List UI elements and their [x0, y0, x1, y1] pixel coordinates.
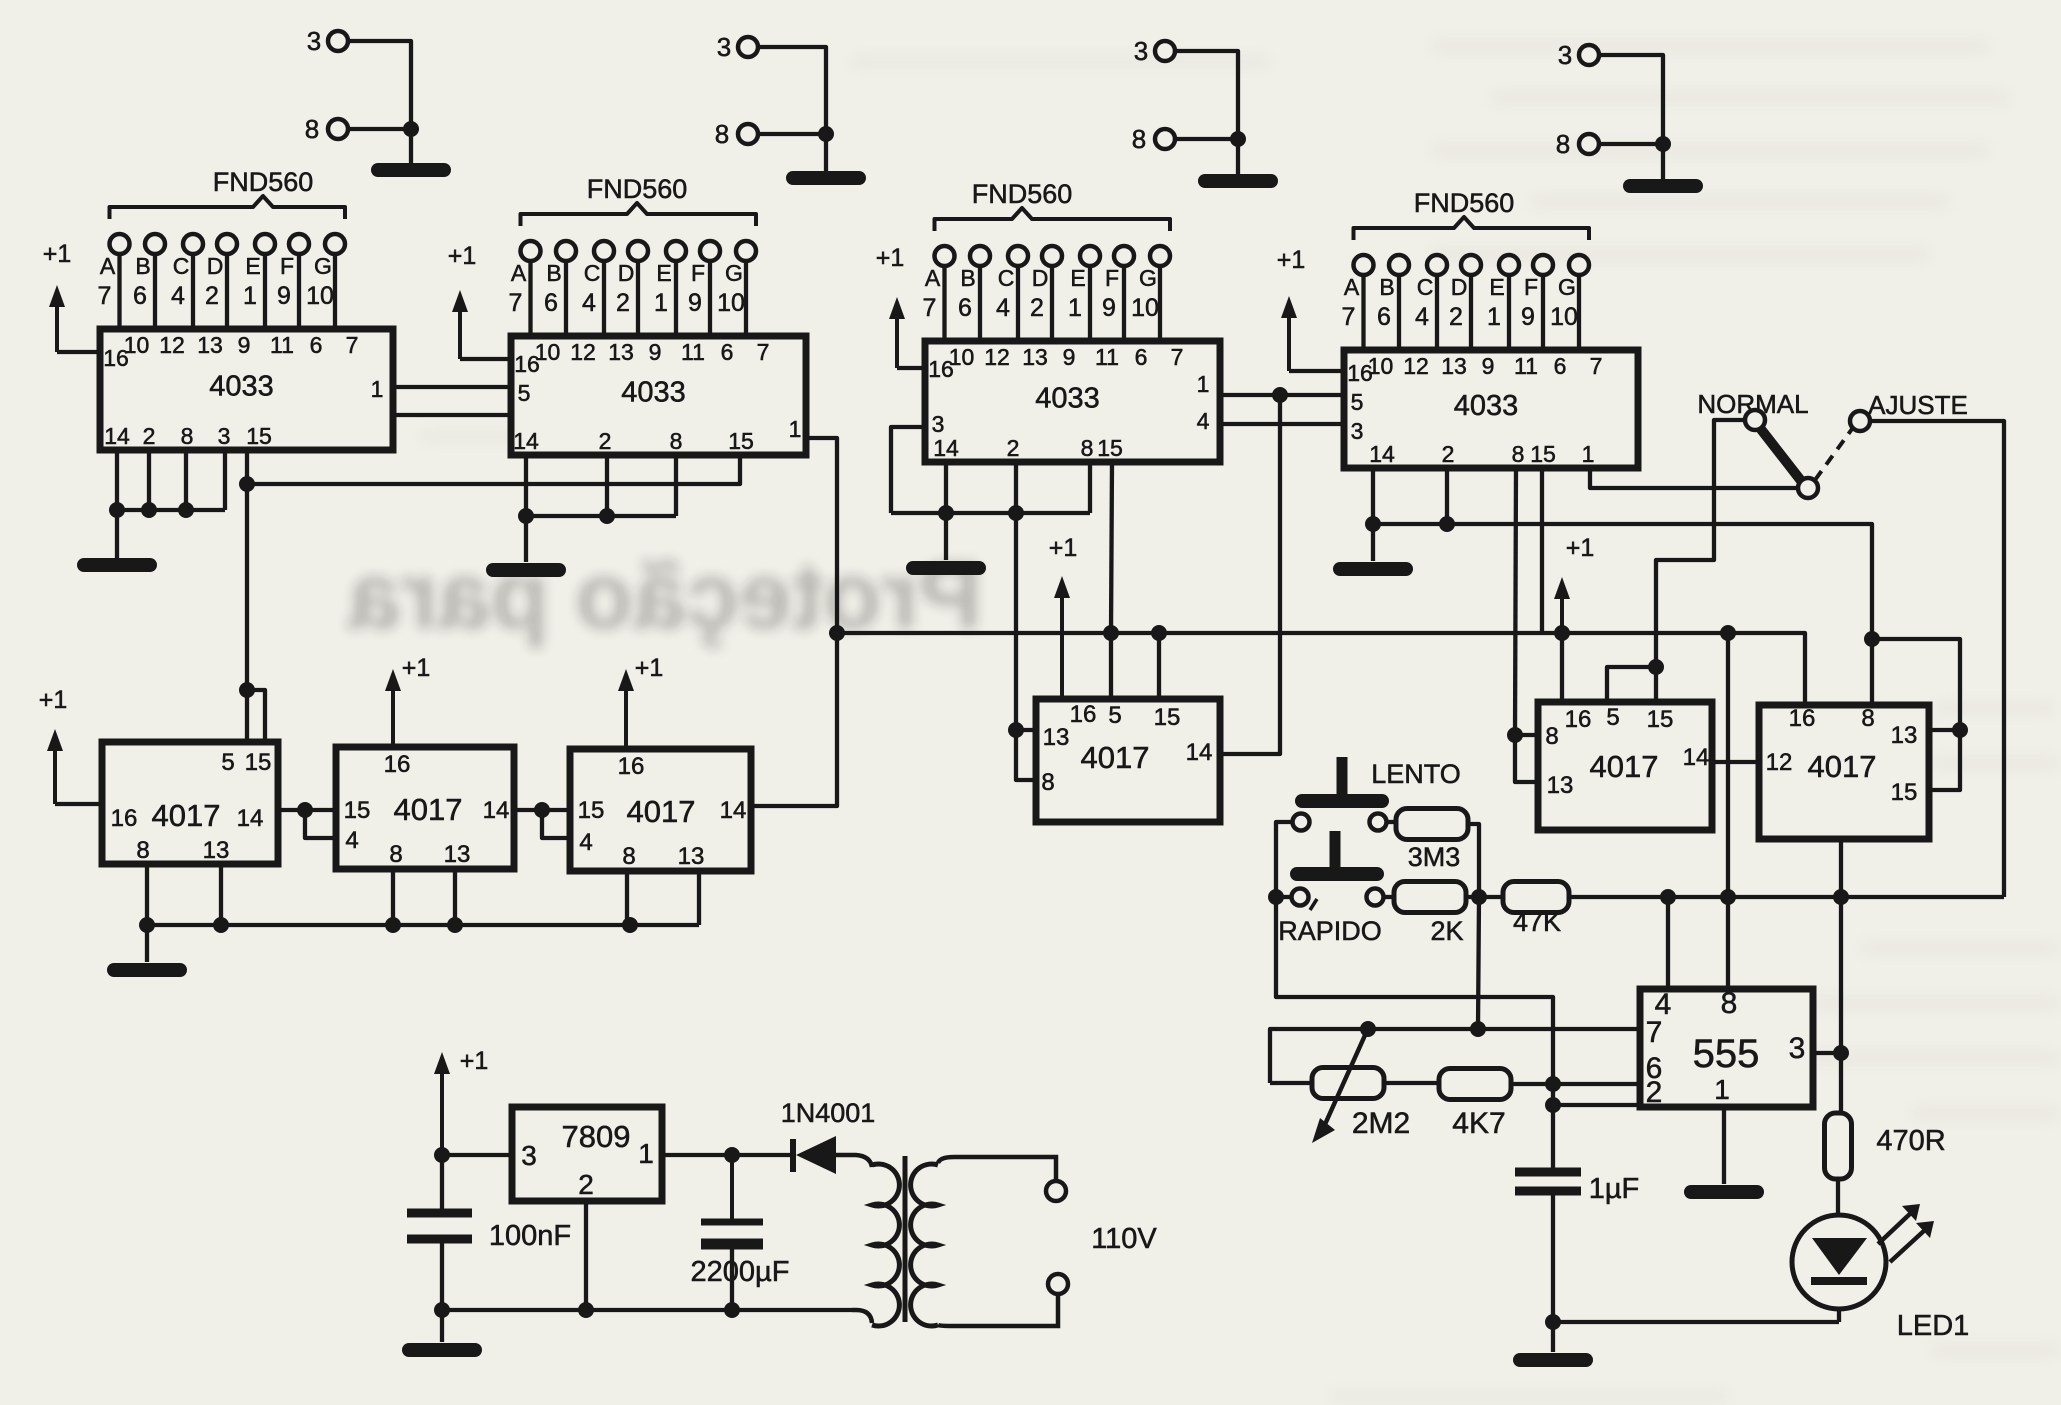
wire U4 rail to ground	[1371, 524, 1375, 561]
IC U9 pin labels	[1545, 704, 1709, 799]
svg-text:15: 15	[245, 749, 272, 776]
svg-text:1: 1	[371, 376, 384, 402]
display DISP4 segment wires	[1364, 275, 1580, 350]
pushbutton RAPIDO right contact	[1367, 889, 1384, 906]
node CONN1 junction	[403, 121, 419, 137]
node feedback junction	[1470, 1021, 1486, 1037]
node U4 rail 14	[1365, 516, 1381, 532]
display DISP4 pin circles	[1354, 255, 1590, 275]
svg-text:11: 11	[1514, 353, 1538, 379]
svg-text:8: 8	[305, 114, 319, 144]
svg-text:16: 16	[1070, 701, 1097, 728]
display DISP2 brace	[521, 203, 757, 226]
wire LENTO left to common	[1276, 822, 1292, 897]
ground supply	[409, 1343, 475, 1357]
svg-text:+1: +1	[876, 244, 905, 272]
svg-text:10: 10	[1550, 303, 1578, 331]
svg-text:1µF: 1µF	[1589, 1173, 1640, 1205]
switch S1 AJUSTE label	[1868, 390, 1968, 420]
wire 2M2 to 4K7	[1384, 1081, 1441, 1085]
svg-text:8: 8	[181, 423, 194, 449]
wire hook to pin5 U5	[245, 690, 249, 742]
display DISP2 FND560 label	[587, 174, 688, 204]
svg-text:1: 1	[243, 282, 257, 310]
wire tap down to U9 pin13	[1515, 735, 1538, 782]
svg-text:A: A	[511, 260, 527, 286]
ground U3	[913, 561, 979, 575]
svg-text:4017: 4017	[1590, 749, 1659, 784]
svg-text:12: 12	[1766, 749, 1793, 776]
node 4017 rail x630	[622, 917, 638, 933]
display DISP2 display pin numbers	[509, 289, 745, 317]
svg-text:4033: 4033	[1035, 383, 1100, 415]
IC U6 pin labels	[344, 751, 510, 868]
svg-text:3: 3	[1351, 418, 1364, 444]
svg-text:4: 4	[579, 829, 592, 856]
wire 2200uF to bottom	[730, 1248, 734, 1310]
switch S1 NORMAL label	[1697, 389, 1808, 419]
svg-text:2: 2	[205, 282, 219, 310]
pushbutton LENTO label	[1371, 759, 1461, 789]
ground CONN1	[378, 163, 444, 177]
svg-text:+1: +1	[39, 686, 68, 714]
wire U3 rail to ground	[944, 513, 948, 560]
pushbutton LENTO left contact	[1293, 814, 1310, 831]
svg-text:4033: 4033	[1454, 390, 1519, 422]
IC U5 name	[152, 798, 221, 833]
terminal CONN3 pin 3 label	[1134, 36, 1148, 66]
wire U4 pin2 down	[1445, 468, 1449, 524]
node U10 13-15 tie	[1952, 722, 1968, 738]
wire reg pin3	[442, 1153, 512, 1157]
svg-text:G: G	[1558, 274, 1576, 300]
potentiometer R4 2M2	[1312, 1068, 1384, 1099]
svg-text:6: 6	[544, 289, 558, 317]
transformer T1 secondary coil	[911, 1164, 938, 1326]
terminal CONN4 pin 8 circle	[1579, 134, 1599, 154]
node U7 input	[534, 802, 550, 818]
wire U4 pin15 down	[1540, 468, 1544, 633]
svg-text:12: 12	[1403, 353, 1429, 379]
IC U3 bottom pin labels	[933, 435, 1123, 461]
wire 555 pin1 down	[1722, 1107, 1726, 1184]
IC U4 top pin numbers	[1368, 353, 1603, 379]
pushbutton LENTO right contact	[1370, 814, 1387, 831]
svg-text:LENTO: LENTO	[1371, 759, 1461, 789]
svg-text:7: 7	[1171, 344, 1184, 370]
wire U3 pin3 loop	[891, 427, 925, 513]
display DISP1 FND560 label	[213, 167, 314, 197]
wire CONN1 pin8 to junction	[348, 127, 411, 131]
power +1 arrow U3	[876, 244, 925, 368]
svg-text:8: 8	[1861, 705, 1874, 732]
wire tap to U9 pin8	[1515, 733, 1538, 737]
svg-text:1: 1	[1487, 303, 1501, 331]
wire gnd rail to U10 pin8	[1870, 639, 1874, 705]
wire AJUSTE down right side	[1870, 421, 2004, 897]
wire U1 pin2 down	[147, 450, 151, 510]
svg-text:5: 5	[1606, 704, 1619, 731]
node gnd rail U10 pin8	[1864, 631, 1880, 647]
IC U3 4033 body	[925, 341, 1220, 462]
terminal CONN2 pin 8 circle	[738, 124, 758, 144]
node U6 input	[297, 802, 313, 818]
wire 2K to node	[1466, 895, 1504, 899]
power +1 arrow U9	[1554, 534, 1594, 633]
wire LED net down	[1839, 897, 1843, 1053]
wire railB to U8 pin5	[1109, 633, 1113, 699]
IC U3 pin 16 label	[928, 356, 954, 382]
svg-text:2: 2	[616, 289, 630, 317]
wire U2 pin8 down	[674, 455, 678, 516]
wire U3 pin14 down	[944, 462, 948, 513]
node U3 rail 2	[1008, 505, 1024, 521]
svg-text:E: E	[245, 253, 260, 279]
svg-text:10: 10	[717, 289, 745, 317]
IC U4 bottom pin labels	[1369, 441, 1594, 467]
svg-text:2K: 2K	[1430, 916, 1463, 946]
svg-text:2: 2	[1442, 441, 1455, 467]
terminal CONN1 pin 3 circle	[328, 31, 348, 51]
node 4017 rail x147	[139, 917, 155, 933]
wire supply +V vertical	[440, 1155, 444, 1212]
svg-text:4033: 4033	[209, 371, 274, 403]
svg-text:13: 13	[1891, 722, 1918, 749]
svg-text:6: 6	[1377, 303, 1391, 331]
svg-text:3: 3	[717, 32, 731, 62]
svg-text:1: 1	[654, 289, 668, 317]
pushbutton RAPIDO left contact	[1292, 889, 1309, 906]
wire U4 pin1 to switch	[1590, 468, 1798, 488]
svg-text:RAPIDO: RAPIDO	[1278, 916, 1382, 946]
svg-text:7: 7	[1590, 353, 1603, 379]
node filter cap top	[724, 1147, 740, 1163]
IC U1 name	[209, 371, 274, 403]
IC U8 name	[1081, 740, 1150, 775]
terminal CONN2 pin 8 label	[715, 119, 729, 149]
resistor R1 3M3	[1396, 809, 1468, 840]
svg-text:FND560: FND560	[972, 179, 1073, 209]
svg-text:C: C	[173, 253, 190, 279]
svg-text:2: 2	[1007, 435, 1020, 461]
wire reg pin1	[662, 1153, 732, 1157]
svg-text:C: C	[584, 260, 601, 286]
wire diode to transformer	[836, 1155, 872, 1167]
svg-text:+1: +1	[448, 242, 477, 270]
svg-text:11: 11	[1095, 344, 1119, 370]
wire U7 pin13 down	[697, 871, 701, 925]
svg-text:14: 14	[483, 797, 510, 824]
svg-text:D: D	[1032, 265, 1049, 291]
svg-text:7: 7	[346, 332, 359, 358]
node railB U9 pin16	[1554, 625, 1570, 641]
node railB U8 pin5	[1103, 625, 1119, 641]
pushbutton RAPIDO plunger	[1297, 831, 1377, 874]
display DISP3 pin circles	[935, 246, 1171, 266]
svg-text:6: 6	[958, 294, 972, 322]
IC U3 name	[1035, 383, 1100, 415]
wire tap down to U8 pin8	[1016, 730, 1036, 780]
label 110V	[1091, 1223, 1157, 1255]
transformer T1 primary coil	[872, 1164, 899, 1326]
wire CONN2 down to ground	[824, 134, 828, 172]
svg-text:+1: +1	[43, 240, 72, 268]
wire 3M3 to 2K node	[1468, 824, 1479, 897]
IC U1 bottom pin labels	[104, 423, 272, 449]
svg-text:8: 8	[1132, 124, 1146, 154]
wire U6 pin14 to U7 pin15	[514, 808, 570, 812]
terminal CONN3 pin 3 circle	[1155, 41, 1175, 61]
svg-text:15: 15	[1647, 706, 1674, 733]
svg-text:9: 9	[1521, 303, 1535, 331]
IC U2 pin 1 label	[789, 416, 802, 442]
svg-text:LED1: LED1	[1897, 1310, 1970, 1342]
wire U2 pin1 to 4017 clock	[751, 633, 837, 806]
svg-text:10: 10	[306, 282, 334, 310]
svg-text:C: C	[998, 265, 1015, 291]
IC U2 top pin numbers	[535, 339, 770, 365]
power +1 arrow U6	[385, 654, 430, 747]
svg-text:12: 12	[159, 332, 185, 358]
svg-text:6: 6	[721, 339, 734, 365]
wire node to ground	[1551, 1322, 1555, 1352]
wire 4K7 to pin6 node	[1511, 1082, 1553, 1086]
wire NORMAL to U6 clock	[1656, 420, 1745, 667]
node supply reg input	[434, 1147, 450, 1163]
IC U4 4033 body	[1344, 350, 1638, 468]
svg-text:47K: 47K	[1513, 907, 1561, 937]
node pin6 junction	[1545, 1076, 1561, 1092]
svg-text:4: 4	[171, 282, 185, 310]
wire CONN1 pin3 to ground rail	[348, 41, 411, 129]
svg-text:E: E	[1489, 274, 1504, 300]
svg-text:5: 5	[518, 380, 531, 406]
node on U3-U4 wire	[1272, 387, 1288, 403]
ground CONN4	[1630, 179, 1696, 193]
svg-text:G: G	[725, 260, 743, 286]
svg-text:B: B	[135, 253, 150, 279]
wire U3 pin15 down	[1111, 462, 1112, 633]
node U2 rail 2	[599, 508, 615, 524]
svg-text:5: 5	[1351, 389, 1364, 415]
svg-text:A: A	[925, 265, 941, 291]
wire 2M2 left lead	[1270, 1081, 1312, 1085]
svg-text:13: 13	[1022, 344, 1048, 370]
terminal CONN1 pin 3 label	[307, 26, 321, 56]
svg-text:8: 8	[622, 843, 635, 870]
wire U3 pin2 down	[1014, 462, 1018, 513]
svg-text:7: 7	[923, 294, 937, 322]
svg-text:14: 14	[720, 797, 747, 824]
svg-text:9: 9	[1482, 353, 1495, 379]
svg-text:+1: +1	[635, 654, 664, 682]
terminal CONN3 pin 8 label	[1132, 124, 1146, 154]
IC U12 7809 body	[512, 1107, 662, 1201]
terminal CONN1 pin 8 circle	[328, 119, 348, 139]
svg-text:13: 13	[1441, 353, 1467, 379]
svg-text:15: 15	[1891, 779, 1918, 806]
ground U4	[1340, 562, 1406, 576]
LED LED1 cathode bar	[1811, 1277, 1867, 1285]
wire CONN2 pin8 to junction	[758, 132, 826, 136]
svg-text:7: 7	[509, 289, 523, 317]
svg-text:14: 14	[933, 435, 959, 461]
svg-text:14: 14	[104, 423, 130, 449]
svg-text:2: 2	[143, 423, 156, 449]
wire primary bottom lead	[852, 1310, 872, 1323]
wire cap to bottom rail	[1551, 1195, 1555, 1322]
svg-text:8: 8	[136, 837, 149, 864]
wire U3 pin4 to U4 pin3	[1220, 422, 1344, 426]
IC U6 4017 body	[336, 747, 514, 869]
svg-text:16: 16	[384, 751, 411, 778]
svg-text:2: 2	[1646, 1076, 1663, 1109]
wire secondary top lead	[938, 1157, 1056, 1180]
display DISP3 brace	[935, 208, 1171, 231]
IC U2 name	[621, 377, 686, 409]
svg-text:1: 1	[638, 1138, 654, 1169]
node filter cap bottom	[724, 1302, 740, 1318]
svg-text:470R: 470R	[1876, 1125, 1945, 1157]
wire U1 pin15 bus to 4017	[245, 484, 249, 690]
wire LED to bottom rail	[1837, 1309, 1841, 1322]
node U1 rail 14	[109, 502, 125, 518]
wire tie to U10 pin15	[1929, 730, 1960, 790]
wire to 555 pin4	[1666, 897, 1670, 989]
svg-text:8: 8	[1512, 441, 1525, 467]
capacitor C2 2200uF	[701, 1155, 763, 1244]
wire railB to U9 pin16	[1560, 633, 1564, 702]
wire U2 bottom rail	[526, 514, 676, 518]
resistor R3 47K label	[1513, 907, 1561, 937]
display DISP3 FND560 label	[972, 179, 1073, 209]
wire U5 pin14 to U6 pin15	[278, 808, 336, 812]
wire hook to U6 pin15	[1654, 667, 1658, 702]
node 47K line LED net	[1833, 889, 1849, 905]
resistor R2 2K	[1394, 882, 1466, 913]
ground 555	[1691, 1185, 1757, 1199]
terminal 110V top	[1046, 1181, 1066, 1201]
node railB U2pin1	[829, 625, 845, 641]
svg-text:6: 6	[1135, 344, 1148, 370]
node pot wiper junction	[1360, 1021, 1376, 1037]
svg-text:D: D	[207, 253, 224, 279]
node 47K line 555pin4	[1660, 889, 1676, 905]
svg-text:F: F	[691, 260, 705, 286]
wire RAPIDO right to 2K	[1384, 895, 1396, 899]
wire tie to U10 pin13	[1929, 728, 1960, 732]
svg-text:4017: 4017	[394, 792, 463, 827]
svg-text:5: 5	[221, 749, 234, 776]
capacitor C2 2200uF label	[691, 1256, 790, 1288]
wire CONN4 pin3 to ground rail	[1599, 55, 1663, 144]
wire gnd rail right	[1872, 639, 1960, 730]
wire railB to 555 pin8	[1726, 633, 1730, 989]
IC U1 top pin numbers	[124, 332, 359, 358]
IC U3 pin 4 label	[1197, 408, 1210, 434]
IC U10 4017 body	[1759, 705, 1929, 839]
terminal 110V bottom	[1048, 1274, 1068, 1294]
wire U3 pin8 down	[1088, 462, 1092, 513]
wire CONN4 pin8 to junction	[1599, 142, 1663, 146]
svg-text:8: 8	[670, 428, 683, 454]
IC U5 4017 body	[102, 742, 278, 864]
svg-text:D: D	[1451, 274, 1468, 300]
capacitor C3 1uF	[1515, 1172, 1581, 1191]
node U3 rail 14	[938, 505, 954, 521]
display DISP1 pin circles	[110, 234, 346, 254]
svg-text:8: 8	[1545, 723, 1558, 750]
wire U6 pin13 down	[453, 869, 457, 925]
IC U1 4033 body	[100, 329, 393, 450]
svg-text:2: 2	[1030, 294, 1044, 322]
wire U1 pin15 down to bus	[245, 450, 249, 484]
svg-text:16: 16	[928, 356, 954, 382]
power +1 arrow U2	[448, 242, 511, 359]
svg-text:4: 4	[996, 294, 1010, 322]
IC U3 pin 3 label	[932, 411, 945, 437]
svg-text:14: 14	[513, 428, 539, 454]
svg-text:6: 6	[1554, 353, 1567, 379]
svg-text:E: E	[656, 260, 671, 286]
svg-text:11: 11	[270, 332, 294, 358]
terminal CONN1 pin 8 label	[305, 114, 319, 144]
display DISP2 segment letters A-G	[511, 260, 743, 286]
wire U3 pin2 down to U8	[1014, 513, 1018, 730]
svg-text:2: 2	[1449, 303, 1463, 331]
node U8 pin13 tap	[1008, 722, 1024, 738]
wire U2 pin1 to node	[806, 438, 837, 633]
svg-text:6: 6	[310, 332, 323, 358]
switch S1 lever	[1760, 428, 1802, 482]
svg-text:1: 1	[1582, 441, 1595, 467]
power +1 arrow supply	[434, 1047, 488, 1155]
wire CONN3 pin3 to ground rail	[1175, 51, 1238, 139]
node 47K line 555pin8	[1720, 889, 1736, 905]
display DISP4 display pin numbers	[1342, 303, 1578, 331]
svg-text:15: 15	[246, 423, 272, 449]
svg-text:3: 3	[218, 423, 231, 449]
ground CONN3	[1205, 174, 1271, 188]
wire U6 pin4 feedback	[305, 810, 336, 838]
svg-text:16: 16	[618, 753, 645, 780]
node clock hook U5	[239, 682, 255, 698]
svg-text:A: A	[100, 253, 116, 279]
IC U2 bottom pin labels	[513, 428, 754, 454]
svg-text:13: 13	[1043, 724, 1070, 751]
terminal CONN2 pin 3 label	[717, 32, 731, 62]
svg-text:15: 15	[344, 797, 371, 824]
svg-text:FND560: FND560	[587, 174, 688, 204]
wire U6 pin8 down	[391, 869, 395, 925]
switch S1 dashed throw	[1815, 429, 1852, 480]
wire U1 pin14 down	[115, 450, 119, 510]
IC U4 name	[1454, 390, 1519, 422]
svg-text:2200µF: 2200µF	[691, 1256, 790, 1288]
wire pin2 node to 555	[1553, 1103, 1640, 1107]
svg-text:2M2: 2M2	[1352, 1107, 1410, 1140]
IC U6 name	[394, 792, 463, 827]
svg-text:B: B	[960, 265, 975, 291]
IC U5 pin labels	[111, 749, 272, 864]
svg-text:13: 13	[444, 841, 471, 868]
svg-text:14: 14	[1683, 744, 1710, 771]
svg-text:1: 1	[1068, 294, 1082, 322]
node 2K 3M3 junction	[1471, 889, 1487, 905]
display DISP1 display pin numbers	[98, 282, 334, 310]
svg-text:7: 7	[757, 339, 770, 365]
svg-text:4017: 4017	[1081, 740, 1150, 775]
